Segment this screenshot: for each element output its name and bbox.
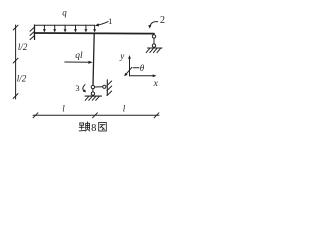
bottom dim tick left [33,113,38,118]
node 3 hinge circle A [91,85,94,88]
bottom dimension line [33,114,159,116]
node2 ground hatch 1 [146,48,150,52]
svg-text:l/2: l/2 [17,73,27,83]
curved arrow to node 1 [95,22,108,27]
caption: character 题 [79,122,90,131]
wall hatch 2 [30,32,34,36]
load arrow 4 [74,25,77,32]
distributed load top line [35,24,95,26]
ground hatch 3 [92,96,96,100]
vertical link A-C [92,89,94,92]
pin hinge circle C [91,92,94,95]
theta direction arrow [124,67,132,76]
x axis [130,74,157,77]
bottom dim tick right [154,113,159,118]
node2 ground hatch 4 [157,48,161,52]
node2 ground hatch 3 [153,48,157,52]
svg-text:ql: ql [75,51,83,61]
dim tick middle [13,58,18,63]
bottom dim tick middle [93,113,98,118]
ground hatch 4 [96,96,100,100]
ground line at node 2 [148,47,163,49]
theta reference stroke [133,67,139,69]
hinge circle B [103,85,106,88]
load arrow 5 [84,25,87,32]
svg-text:1: 1 [108,16,112,26]
load arrow 1 [43,25,46,32]
fixed wall support at left end [34,25,36,40]
svg-text:θ: θ [140,63,145,73]
curved arrow to node 3 [83,85,86,93]
dim tick top [13,25,18,30]
node2 ground hatch 2 [150,48,154,52]
horizontal link to wall [95,86,103,88]
dim tick bottom [13,94,18,99]
svg-text:l/2: l/2 [18,42,28,52]
right wall hatch 1 [107,81,112,86]
svg-text:l: l [62,103,65,113]
svg-text:x: x [153,79,159,89]
vertical member node1 to node3 [93,34,94,86]
node 2 link [153,38,155,44]
svg-text:8: 8 [91,123,96,134]
horizontal load ql arrow [65,61,93,64]
svg-text:2: 2 [160,15,165,26]
y axis [128,55,131,76]
curved arrow to node 2 [148,22,157,29]
load arrow 3 [64,25,67,32]
left dimension line [15,25,17,99]
right wall line [106,80,108,95]
ground line at node 3 [85,95,102,97]
caption: character 图 [99,123,107,132]
wall hatch 1 [30,27,34,31]
load arrow 2 [53,25,56,32]
svg-text:y: y [119,51,124,61]
node 2 hinge circle top [152,35,155,38]
svg-text:3: 3 [75,83,79,93]
load arrow 6 [93,25,96,32]
ground hatch 2 [89,96,93,100]
right wall hatch 2 [107,86,112,91]
ground hatch 1 [85,96,89,100]
wall hatch 3 [30,36,34,40]
right wall hatch 3 [107,91,112,96]
svg-text:q: q [62,8,67,18]
svg-text:l: l [123,103,126,113]
node 2 hinge circle bottom [152,44,155,47]
beam member 1-2 [35,32,155,35]
